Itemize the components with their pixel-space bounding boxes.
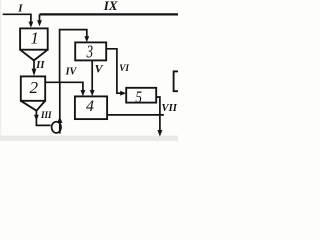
wire V: box 3 bottom down to box 4 <box>91 60 93 90</box>
svg-text:IX: IX <box>103 0 118 13</box>
box 5 <box>126 88 156 103</box>
arrowhead II into vessel 2 <box>32 69 37 76</box>
arrowhead VI into box 5 <box>120 91 126 96</box>
vessel 2 body <box>21 76 45 100</box>
vessel 1 funnel <box>20 50 48 61</box>
svg-text:4: 4 <box>86 98 94 115</box>
wire recycle loop: junction up and over to mill 3 <box>60 30 87 83</box>
box 4 <box>75 96 107 119</box>
wire IV: vessel 2 overflow to junction to box 4 <box>45 82 83 90</box>
bottom scan margin strip <box>0 136 178 141</box>
svg-text:V: V <box>95 62 104 76</box>
wire feed I horizontal+drop <box>3 14 31 22</box>
vessel 2 funnel <box>21 101 45 111</box>
svg-text:VI: VI <box>119 63 129 73</box>
arrowhead recycle into box 3 top <box>84 36 89 42</box>
arrowhead IV into box 4 <box>81 90 86 96</box>
wire VII: box 4 output horizontal <box>107 114 164 116</box>
arrowhead IX into vessel 1 <box>37 20 42 26</box>
svg-text:2: 2 <box>30 78 39 97</box>
wire box5 output down <box>156 97 160 130</box>
arrowhead III on line <box>34 115 39 121</box>
wire III: vessel 2 apex down and to pump <box>36 111 50 126</box>
svg-text:3: 3 <box>86 41 93 61</box>
left scan edge <box>0 0 1 141</box>
svg-text:II: II <box>35 60 45 71</box>
page background <box>0 0 178 141</box>
svg-text:I: I <box>17 2 23 14</box>
svg-text:III: III <box>40 110 52 120</box>
vessel 1 body <box>20 28 48 49</box>
wire IX main horizontal <box>40 13 179 15</box>
wire II: vessel 1 apex down to vessel 2 <box>33 60 35 69</box>
arrowhead final output down <box>157 130 162 137</box>
svg-text:IV: IV <box>65 67 78 78</box>
box 3 <box>75 42 106 60</box>
svg-text:1: 1 <box>31 29 39 48</box>
svg-text:5: 5 <box>135 87 142 106</box>
wire pump riser <box>59 82 61 133</box>
arrowhead V into box 4 <box>90 90 95 96</box>
clipped box at right edge <box>174 71 181 91</box>
wire IX drop into vessel 1 <box>39 14 41 20</box>
arrowhead I into vessel 1 <box>29 22 34 28</box>
svg-text:VII: VII <box>162 103 178 114</box>
pump circle <box>52 122 61 133</box>
wire VI: box 3 right to box 5 <box>106 49 121 93</box>
arrowhead pump discharge up <box>57 116 62 123</box>
